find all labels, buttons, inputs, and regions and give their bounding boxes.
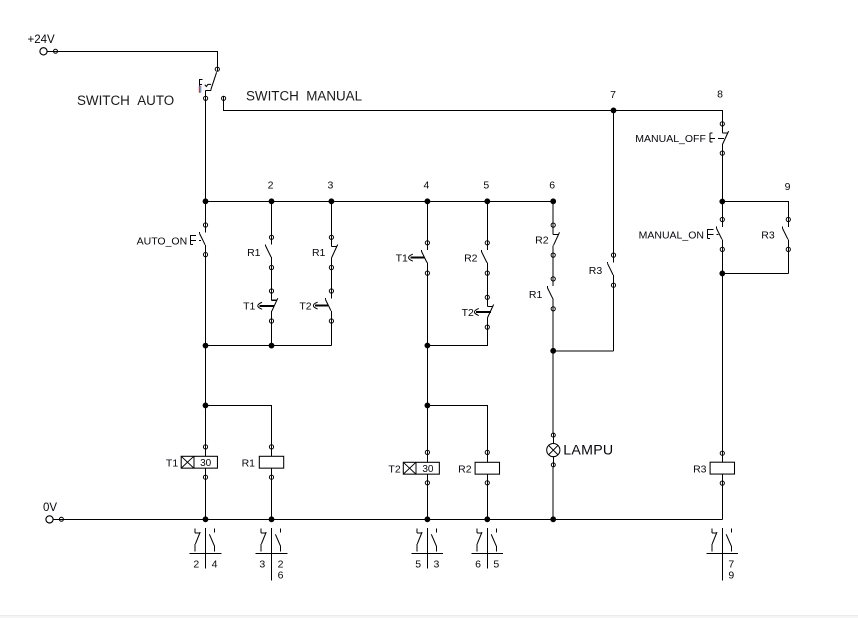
contact MANUAL_ON: [716, 217, 724, 252]
status bar: [0, 615, 858, 618]
wire: [721, 202, 723, 218]
label R1 rung6: [529, 289, 543, 301]
svg-text:T2: T2: [462, 307, 474, 319]
svg-text:4: 4: [423, 180, 429, 192]
wire: [271, 323, 273, 345]
wire: [552, 257, 554, 276]
svg-text:30: 30: [200, 458, 212, 469]
label R3 rung7: [589, 265, 603, 277]
node 3: [327, 180, 333, 192]
svg-text:9: 9: [728, 569, 734, 581]
label T2 rung3: [299, 300, 311, 312]
svg-text:0V: 0V: [43, 502, 57, 514]
svg-text:6: 6: [475, 559, 481, 571]
wire: [722, 202, 788, 218]
wire: [330, 323, 332, 345]
svg-text:MANUAL_OFF: MANUAL_OFF: [635, 133, 706, 145]
timer contact T2 rung3: [326, 288, 334, 323]
svg-text:T1: T1: [396, 252, 408, 264]
label R1 rung3: [312, 247, 326, 259]
terminal +24V: [40, 48, 58, 55]
value 30 T2: [422, 464, 434, 475]
svg-text:R1: R1: [242, 458, 256, 470]
label T2 rung5: [462, 307, 474, 319]
svg-text:+24V: +24V: [28, 34, 56, 46]
switch SWITCH_AUTO blade: [204, 67, 226, 101]
svg-text:2: 2: [268, 180, 274, 192]
timer coil T2: [403, 450, 439, 486]
label T1 coil: [166, 458, 178, 470]
label R2 rung5: [464, 252, 478, 264]
label T1 rung4: [396, 252, 408, 264]
wire: [205, 479, 207, 519]
svg-text:AUTO_ON: AUTO_ON: [137, 235, 188, 247]
timer arrow T1 rung4: [409, 254, 425, 261]
wire: [426, 275, 428, 345]
label R2 rung6: [535, 234, 549, 246]
node 7: [611, 108, 617, 114]
junction: [550, 516, 556, 522]
svg-text:8: 8: [717, 89, 723, 101]
cross-ref contacts R3: [706, 528, 738, 581]
label AUTO_ON: [137, 235, 188, 247]
timer contact T2 rung5: [485, 295, 493, 330]
svg-text:3: 3: [259, 559, 265, 571]
timer contact T1 rung4: [422, 240, 430, 276]
wire: [486, 485, 488, 519]
svg-text:3: 3: [433, 559, 439, 571]
wire: [426, 346, 428, 406]
junction: [719, 271, 725, 277]
wire: [426, 201, 428, 240]
wire: [330, 270, 332, 289]
wire: [330, 201, 332, 235]
svg-text:6: 6: [549, 180, 555, 192]
label 0V: [43, 502, 57, 514]
junction: [425, 516, 431, 522]
svg-text:R2: R2: [464, 252, 478, 264]
wire: [426, 405, 428, 450]
label +24V: [28, 34, 56, 46]
junction: [203, 343, 209, 349]
svg-text:3: 3: [327, 180, 333, 192]
junction: [484, 516, 490, 522]
wire bus rung top: [206, 200, 554, 202]
wire bus rung bottom left: [206, 345, 332, 347]
actuator MANUAL_ON: [708, 229, 719, 238]
junction: [203, 198, 209, 204]
wire: [552, 467, 554, 519]
cross-ref contacts R2: [471, 528, 503, 571]
cross-ref contacts T1: [190, 528, 222, 571]
label T1 rung2: [243, 300, 255, 312]
label 7: [610, 89, 616, 101]
timer coil T1: [181, 444, 217, 480]
svg-text:T1: T1: [166, 458, 178, 470]
wire: [613, 287, 615, 350]
junction: [719, 199, 725, 205]
svg-text:T1: T1: [243, 300, 255, 312]
svg-text:4: 4: [212, 559, 218, 571]
svg-text:SWITCH AUTO: SWITCH AUTO: [77, 93, 174, 108]
contact AUTO_ON: [200, 222, 208, 257]
relay coil R1: [259, 444, 283, 480]
contact R2 rung6: [551, 223, 559, 258]
svg-text:7: 7: [610, 89, 616, 101]
junction: [203, 403, 209, 409]
wire: [205, 346, 207, 406]
junction: [269, 343, 275, 349]
label MANUAL_ON: [639, 229, 704, 241]
label R2 coil: [458, 464, 472, 476]
label T2 coil: [388, 464, 400, 476]
cross-ref contacts T2: [411, 528, 443, 571]
label R3 coil: [693, 463, 707, 475]
switch actuator: [200, 79, 211, 86]
label R1 rung2: [247, 247, 261, 259]
wire: [427, 329, 487, 345]
node 2: [268, 180, 274, 192]
wire: [426, 485, 428, 519]
svg-text:5: 5: [415, 559, 421, 571]
svg-text:MANUAL_ON: MANUAL_ON: [639, 229, 704, 241]
wire: [271, 479, 273, 519]
wire: [552, 351, 554, 433]
contact R1 rung6: [547, 276, 555, 311]
actuator MANUAL_OFF: [710, 133, 724, 142]
wire SWITCH MANUAL line: [224, 101, 723, 122]
wire: [613, 110, 615, 253]
svg-text:R1: R1: [529, 289, 543, 301]
wire: [271, 201, 273, 235]
cross-ref contacts R1: [256, 528, 288, 581]
timer arrow T2 rung5: [474, 309, 490, 316]
junction: [484, 198, 490, 204]
junction: [269, 516, 275, 522]
lamp LAMPU: [547, 433, 560, 467]
label R1 coil: [242, 458, 256, 470]
label 8: [717, 89, 723, 101]
wire: [721, 155, 723, 201]
wire: [205, 257, 207, 346]
switch actuator color artifact: [198, 86, 202, 93]
contact R2 rung5: [481, 240, 489, 276]
label SWITCH AUTO: [77, 93, 174, 108]
junction: [425, 343, 431, 349]
wire: [486, 275, 488, 295]
wire: [552, 311, 554, 351]
timer contact T1 rung2: [269, 288, 277, 323]
svg-text:T2: T2: [299, 300, 311, 312]
wire: [721, 252, 723, 274]
label MANUAL_OFF: [635, 133, 706, 145]
svg-text:R1: R1: [247, 247, 261, 259]
svg-text:5: 5: [493, 559, 499, 571]
svg-text:5: 5: [483, 180, 489, 192]
svg-text:R2: R2: [535, 234, 549, 246]
contact R3 rung9: [782, 217, 790, 252]
label LAMPU: [563, 442, 613, 458]
timer arrow T1 rung2: [258, 303, 274, 310]
svg-text:SWITCH MANUAL: SWITCH MANUAL: [246, 88, 362, 103]
wire: [486, 201, 488, 240]
contact R1 rung3: [329, 235, 337, 270]
wire: [205, 405, 207, 444]
svg-text:30: 30: [422, 464, 434, 475]
terminal 0V: [46, 516, 64, 523]
wire +24V feed: [58, 51, 218, 67]
actuator AUTO_ON: [190, 235, 201, 244]
wire: [206, 405, 272, 444]
svg-text:R3: R3: [693, 463, 707, 475]
junction: [550, 348, 556, 354]
node 5: [483, 180, 489, 192]
wire: [722, 272, 788, 274]
svg-text:R3: R3: [761, 229, 775, 241]
label 9: [785, 181, 791, 193]
junction: [329, 198, 335, 204]
label SWITCH MANUAL: [246, 88, 362, 103]
node 4: [423, 180, 429, 192]
svg-text:R1: R1: [312, 247, 326, 259]
contact R3 rung7: [608, 253, 616, 288]
svg-text:9: 9: [785, 181, 791, 193]
wire: [552, 201, 554, 223]
wire: [721, 485, 723, 519]
contact MANUAL_OFF: [720, 121, 728, 155]
junction: [425, 403, 431, 409]
wire switch to bus: [205, 101, 207, 202]
wire: [427, 405, 487, 450]
svg-text:R2: R2: [458, 464, 472, 476]
svg-text:R3: R3: [589, 265, 603, 277]
wire: [553, 350, 613, 352]
svg-text:6: 6: [278, 569, 284, 581]
wire: [271, 270, 273, 289]
wire: [787, 252, 789, 274]
wire: [205, 201, 207, 223]
junction: [425, 198, 431, 204]
value 30 T1: [200, 458, 212, 469]
relay coil R3: [710, 451, 734, 486]
wire: [721, 273, 723, 451]
svg-text:2: 2: [193, 559, 199, 571]
contact R1 rung2: [266, 235, 274, 270]
junction: [203, 516, 209, 522]
label R3 rung9: [761, 229, 775, 241]
relay coil R2: [475, 450, 499, 486]
node 6: [549, 180, 555, 192]
junction: [269, 198, 275, 204]
timer arrow T2 rung3: [313, 302, 327, 309]
svg-text:LAMPU: LAMPU: [563, 442, 613, 458]
wire bus 0V: [64, 518, 723, 520]
svg-text:T2: T2: [388, 464, 400, 476]
junction: [550, 198, 556, 204]
